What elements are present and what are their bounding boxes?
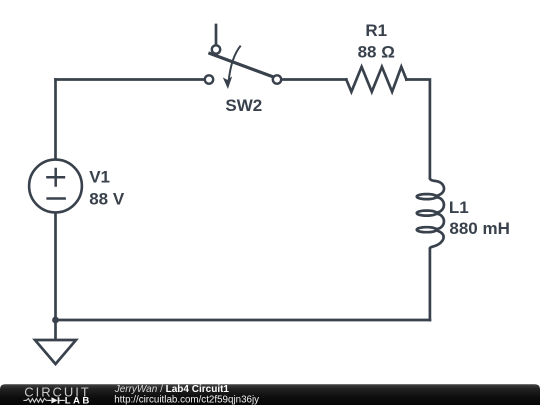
junction node: [52, 317, 59, 324]
wire bottom: [56, 319, 430, 322]
wire left vertical below V1 to ground stem: [54, 213, 57, 341]
switch SW2 blade: [208, 53, 273, 77]
svg-text:LAB: LAB: [65, 395, 92, 405]
svg-text:L1: L1: [449, 198, 469, 217]
svg-text:88 V: 88 V: [89, 190, 125, 209]
footer bar: [0, 384, 540, 405]
ground: [35, 340, 76, 364]
svg-text:V1: V1: [89, 168, 110, 187]
wire top-left to switch left terminal: [56, 78, 205, 81]
svg-text:88 Ω: 88 Ω: [358, 42, 395, 61]
switch SW2 motion arrow: [229, 46, 241, 82]
wire resistor to top-right corner: [406, 80, 430, 179]
V1 minus sign: [46, 197, 66, 200]
switch SW2 top stub: [215, 25, 218, 45]
switch SW2 terminals: [205, 45, 281, 83]
svg-text:R1: R1: [365, 21, 387, 40]
wire switch right terminal to resistor: [281, 78, 346, 81]
svg-text:880 mH: 880 mH: [449, 219, 509, 238]
wire left vertical above V1: [54, 80, 57, 160]
svg-text:http://circuitlab.com/ct2f59qj: http://circuitlab.com/ct2f59qjn36jy: [114, 395, 259, 405]
svg-text:JerryWan / Lab4 Circuit1: JerryWan / Lab4 Circuit1: [114, 384, 230, 395]
inductor L1 coil: [417, 178, 444, 249]
resistor R1: [346, 67, 406, 92]
voltage source V1: [29, 160, 82, 213]
svg-text:SW2: SW2: [225, 96, 262, 115]
footer logo resistor-diode motif: [23, 399, 47, 403]
wire right vertical below inductor: [429, 249, 432, 320]
V1 plus sign: [46, 168, 66, 199]
